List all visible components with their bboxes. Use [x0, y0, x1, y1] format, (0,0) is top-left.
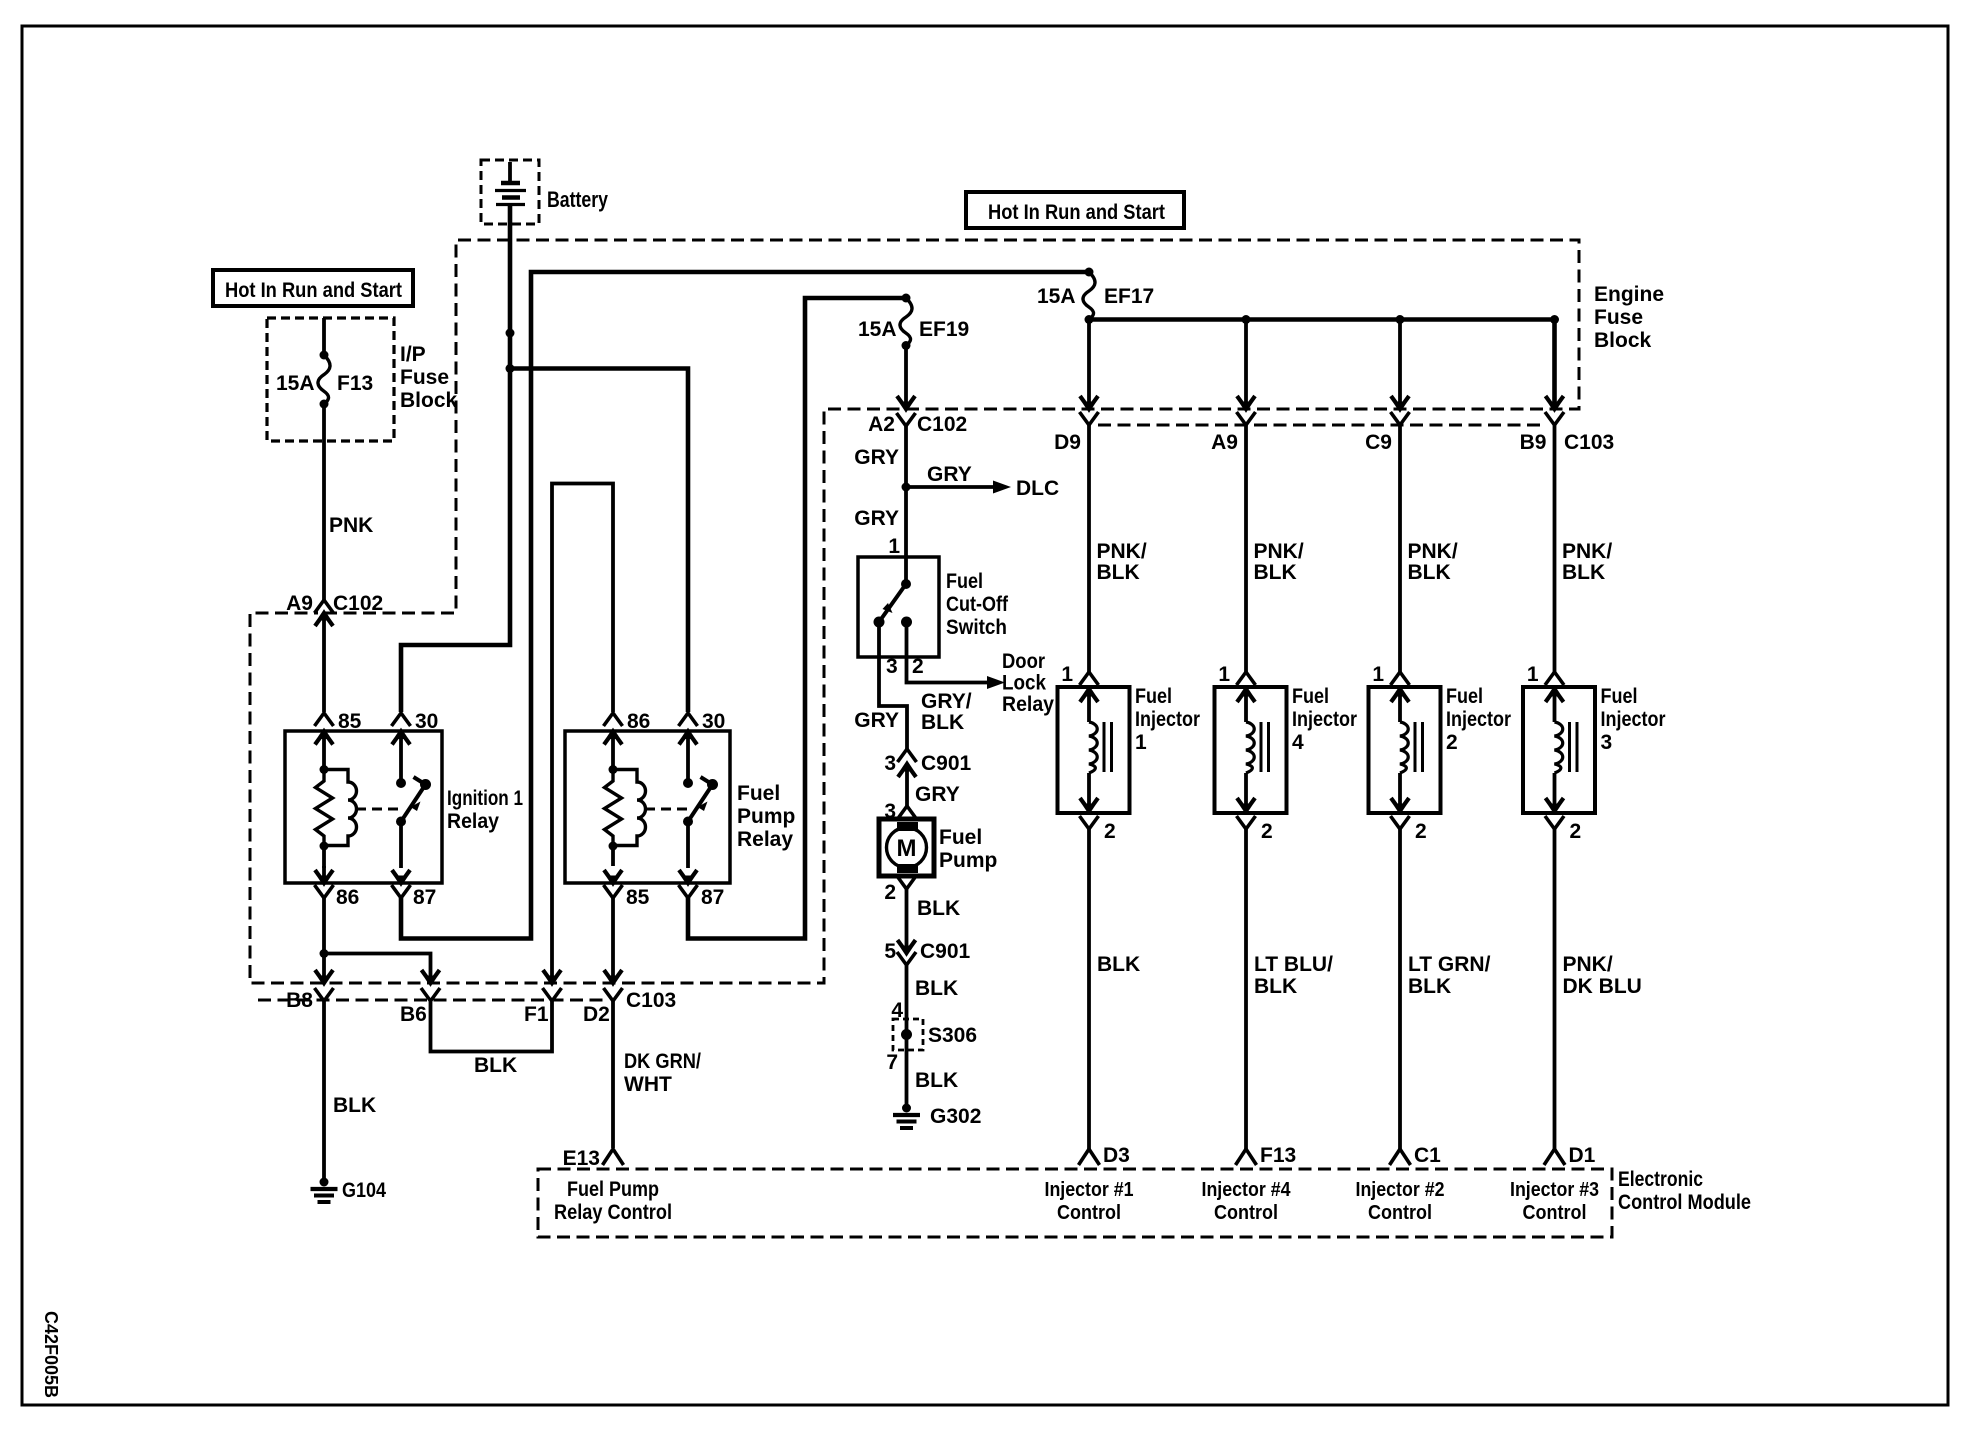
wire BLK C901 to S306: [905, 965, 909, 1019]
svg-text:PNK/: PNK/: [1408, 540, 1458, 563]
svg-text:WHT: WHT: [624, 1073, 672, 1096]
ground G104: [320, 1178, 329, 1187]
svg-text:F13: F13: [1260, 1144, 1296, 1167]
svg-text:Fuse: Fuse: [400, 366, 449, 389]
fuse F13 15A: [322, 318, 326, 355]
svg-text:2: 2: [1261, 820, 1273, 843]
svg-text:87: 87: [413, 886, 436, 909]
connector D9 arrow: [1080, 396, 1098, 409]
injector 2 pin2 chevron+label: [1391, 816, 1410, 829]
bus corner dot B9 column: [1550, 315, 1559, 324]
svg-text:PNK/: PNK/: [1254, 540, 1304, 563]
injector 4 pin1 chevron+label: [1237, 672, 1256, 685]
svg-text:BLK: BLK: [1562, 561, 1605, 584]
wire injector 1 to ECM: [1087, 829, 1091, 1149]
junction dot on battery wire (y=333): [506, 329, 515, 338]
svg-text:Electronic: Electronic: [1618, 1168, 1703, 1191]
ignition relay coil to pin86: [322, 846, 326, 868]
svg-text:Engine: Engine: [1594, 283, 1664, 306]
svg-text:C901: C901: [920, 940, 971, 963]
fuel pump relay switch to pin87: [686, 822, 690, 869]
connector D1 chevron: [1544, 1149, 1565, 1165]
wire DK GRN/WHT D2 to E13: [611, 1001, 615, 1148]
connector C1 chevron: [1390, 1149, 1411, 1165]
connector B6 arrow: [422, 970, 440, 983]
svg-text:I/P: I/P: [400, 343, 426, 366]
svg-text:PNK/: PNK/: [1562, 540, 1612, 563]
svg-text:Ignition 1: Ignition 1: [447, 787, 523, 810]
connector C9 arrow: [1391, 396, 1409, 409]
svg-text:A9: A9: [286, 592, 313, 615]
svg-text:Relay: Relay: [737, 828, 793, 851]
svg-text:Fuel: Fuel: [1446, 685, 1483, 708]
svg-text:LT GRN/: LT GRN/: [1408, 953, 1491, 976]
connector A2 C102 arrow: [897, 396, 915, 409]
svg-text:Injector #1: Injector #1: [1045, 1179, 1134, 1201]
connector C901 pin3: [898, 749, 917, 762]
svg-text:Control Module: Control Module: [1618, 1191, 1751, 1214]
fuel injector 3 internals: [1546, 689, 1564, 702]
wire PNK/BLK feed to injector 1: [1087, 425, 1091, 672]
svg-text:C103: C103: [1564, 431, 1614, 454]
battery B1 symbol: [508, 162, 512, 183]
ECM dashed box: [538, 1169, 1612, 1237]
ignition relay dashed link: [356, 808, 404, 811]
fuel pump relay dashed link: [645, 808, 691, 811]
svg-text:Lock: Lock: [1002, 672, 1046, 695]
svg-text:C901: C901: [921, 752, 972, 775]
svg-text:2: 2: [1415, 820, 1427, 843]
ignition relay coil: [320, 765, 329, 774]
ignition relay coil feed arrows: [315, 732, 333, 745]
wire PNK/BLK feed to injector 2: [1398, 425, 1402, 672]
injector 4 pin2 chevron+label: [1237, 816, 1256, 829]
ignition relay pin87 chevron+label: [392, 885, 411, 898]
svg-text:F13: F13: [337, 372, 373, 395]
svg-text:BLK: BLK: [921, 711, 964, 734]
connector F1 arrow: [543, 970, 561, 983]
battery B1 dashed box: [481, 160, 539, 224]
injector 1 pin2 chevron+label: [1080, 816, 1099, 829]
pump pin2 chevron: [897, 876, 916, 889]
wire PNK/BLK feed to injector 3: [1553, 425, 1557, 672]
wire junction to B6: [324, 954, 431, 983]
wire ignition 86 down + junction: [322, 898, 326, 982]
fuel pump relay pin30 chevron+label: [679, 713, 698, 726]
svg-text:EF19: EF19: [919, 318, 969, 341]
svg-text:85: 85: [338, 710, 362, 733]
svg-text:1: 1: [1218, 663, 1230, 686]
svg-text:BLK: BLK: [1097, 561, 1140, 584]
svg-text:A9: A9: [1211, 431, 1238, 454]
label box Hot In Run and Start (right): [966, 192, 1184, 228]
svg-text:GRY: GRY: [915, 783, 960, 806]
svg-text:1: 1: [1135, 731, 1147, 754]
svg-text:Control: Control: [1368, 1202, 1432, 1224]
svg-text:Fuel: Fuel: [1601, 685, 1638, 708]
injector 2 pin1 chevron+label: [1391, 672, 1410, 685]
fuel pump relay coil feed arrows: [604, 732, 622, 745]
fuel injector 1 box: [1058, 687, 1130, 813]
wire BLK S306 to G302: [905, 1050, 909, 1107]
connector F13 chevron: [1236, 1149, 1257, 1165]
svg-text:PNK/: PNK/: [1097, 540, 1147, 563]
fuel pump relay pin85 chevron+label: [604, 885, 623, 898]
wire BLK pump to C901 pin5: [905, 889, 909, 951]
svg-text:Injector: Injector: [1292, 708, 1357, 731]
svg-text:Fuel: Fuel: [737, 782, 780, 805]
svg-text:B6: B6: [400, 1003, 427, 1026]
svg-text:C9: C9: [1365, 431, 1392, 454]
svg-text:Block: Block: [400, 389, 458, 412]
wire ignition relay 87 riser to fuse EF17: [401, 272, 1089, 939]
svg-text:DK GRN/: DK GRN/: [624, 1050, 701, 1073]
svg-text:G302: G302: [930, 1105, 981, 1128]
svg-text:Injector #3: Injector #3: [1510, 1179, 1599, 1201]
svg-text:Block: Block: [1594, 329, 1652, 352]
svg-text:30: 30: [702, 710, 725, 733]
svg-text:Fuse: Fuse: [1594, 306, 1643, 329]
svg-text:GRY/: GRY/: [921, 690, 972, 713]
fuel pump relay switch: [683, 778, 693, 788]
fuel injector 1 internals: [1080, 689, 1098, 702]
svg-text:1: 1: [1061, 663, 1073, 686]
wire GRY/BLK to door lock relay: [907, 622, 995, 683]
wire injector 2 to ECM: [1398, 829, 1402, 1149]
ignition relay pin30 chevron+label: [392, 713, 411, 726]
svg-text:PNK: PNK: [329, 514, 373, 537]
svg-text:7: 7: [886, 1051, 898, 1074]
connector B9 arrow: [1546, 396, 1564, 409]
svg-text:Cut-Off: Cut-Off: [946, 593, 1009, 616]
wire battery to fuel pump relay pin30: [510, 369, 688, 713]
svg-text:DK BLU: DK BLU: [1563, 975, 1642, 998]
svg-text:2: 2: [1104, 820, 1116, 843]
svg-text:2: 2: [1570, 820, 1582, 843]
svg-text:GRY: GRY: [927, 463, 972, 486]
svg-text:3: 3: [886, 655, 898, 678]
svg-text:Fuel: Fuel: [1292, 685, 1329, 708]
dashed boundary engine fuse block region: [250, 240, 1579, 983]
svg-text:BLK: BLK: [915, 1069, 958, 1092]
svg-text:Hot In Run and Start: Hot In Run and Start: [988, 201, 1165, 224]
splice S306 dot: [901, 1029, 912, 1040]
svg-text:Fuel: Fuel: [1135, 685, 1172, 708]
svg-text:Hot In Run and Start: Hot In Run and Start: [225, 279, 402, 302]
svg-text:Control: Control: [1523, 1202, 1587, 1224]
svg-text:E13: E13: [563, 1147, 600, 1170]
wire BLK jumper B6 to F1: [431, 1001, 553, 1052]
junction dot battery feed split: [506, 364, 515, 373]
connector E13 chevron: [603, 1149, 624, 1165]
wire BLK B8 to G104: [322, 1001, 326, 1181]
fuel injector 4 internals: [1237, 689, 1255, 702]
svg-text:Battery: Battery: [547, 187, 609, 212]
svg-text:C102: C102: [333, 592, 383, 615]
svg-text:D9: D9: [1054, 431, 1081, 454]
fuse EF17 15A: [1085, 268, 1094, 277]
fuel injector 4 box: [1215, 687, 1287, 813]
svg-text:15A: 15A: [858, 318, 897, 341]
connector A9 arrow: [1237, 396, 1255, 409]
svg-text:Pump: Pump: [939, 849, 997, 872]
svg-text:LT BLU/: LT BLU/: [1254, 953, 1333, 976]
wire GRY tee to DLC: [906, 485, 1000, 489]
I/P fuse block dashed box: [267, 318, 394, 441]
svg-text:C102: C102: [917, 413, 967, 436]
svg-text:Injector: Injector: [1601, 708, 1666, 731]
svg-text:1: 1: [888, 535, 900, 558]
label box Hot In Run and Start (left): [213, 270, 413, 306]
svg-text:2: 2: [1446, 731, 1458, 754]
fuel pump relay pin86 chevron+label: [604, 713, 623, 726]
svg-text:86: 86: [336, 886, 359, 909]
svg-text:1: 1: [1372, 663, 1384, 686]
wire bus drop C9: [1398, 320, 1402, 409]
svg-text:Relay: Relay: [1002, 693, 1054, 716]
fuel cut-off switch contacts: [904, 557, 908, 584]
wire injector 3 to ECM: [1553, 829, 1557, 1149]
junction dot DLC tee: [902, 483, 911, 492]
svg-text:87: 87: [701, 886, 724, 909]
fuel injector 3 box: [1523, 687, 1595, 813]
svg-text:Control: Control: [1057, 1202, 1121, 1224]
svg-text:BLK: BLK: [1408, 561, 1451, 584]
ignition relay switch: [396, 778, 406, 788]
ignition relay switch to pin87: [399, 822, 403, 869]
svg-text:GRY: GRY: [854, 507, 899, 530]
svg-text:Fuel: Fuel: [939, 826, 982, 849]
injector supply bus from EF17: [1089, 320, 1555, 409]
dashed connector line C103 lower: [258, 999, 606, 1002]
ignition 1 relay box: [285, 731, 442, 883]
svg-text:C103: C103: [626, 989, 676, 1012]
wire injector 4 to ECM: [1244, 829, 1248, 1149]
connector D3 chevron: [1079, 1149, 1100, 1165]
bus junction dot A9 column: [1242, 315, 1251, 324]
fuel injector 2 box: [1369, 687, 1441, 813]
svg-text:D2: D2: [583, 1003, 610, 1026]
svg-text:4: 4: [1292, 731, 1304, 754]
svg-text:3: 3: [884, 752, 896, 775]
connector B8 arrow: [315, 970, 333, 983]
svg-text:15A: 15A: [276, 372, 315, 395]
svg-text:BLK: BLK: [917, 897, 960, 920]
svg-text:Control: Control: [1214, 1202, 1278, 1224]
fuel pump motor symbol: [897, 822, 918, 831]
wire PNK F13 to connector A9: [322, 441, 326, 601]
svg-text:PNK/: PNK/: [1563, 953, 1613, 976]
svg-text:Relay: Relay: [447, 810, 499, 833]
svg-text:Injector: Injector: [1135, 708, 1200, 731]
fuel pump relay coil: [609, 765, 618, 774]
svg-text:GRY: GRY: [854, 446, 899, 469]
svg-text:30: 30: [415, 710, 438, 733]
svg-text:Pump: Pump: [737, 805, 795, 828]
svg-text:DLC: DLC: [1016, 477, 1059, 500]
connector C901 pin5: [898, 940, 916, 953]
fuel pump box: [879, 819, 934, 876]
svg-text:Injector: Injector: [1446, 708, 1511, 731]
svg-text:15A: 15A: [1037, 285, 1076, 308]
svg-text:3: 3: [1601, 731, 1613, 754]
wire GRY A2 to fuel cutoff switch: [904, 426, 908, 557]
wire F1 riser to fuel pump relay pin86: [552, 484, 613, 983]
svg-text:5: 5: [884, 940, 896, 963]
injector 1 pin1 chevron+label: [1080, 672, 1099, 685]
svg-text:C1: C1: [1414, 1144, 1441, 1167]
svg-text:EF17: EF17: [1104, 285, 1154, 308]
wire bus drop A9: [1244, 320, 1248, 409]
svg-text:85: 85: [626, 886, 650, 909]
ignition relay pin86 chevron+label: [315, 885, 334, 898]
svg-text:S306: S306: [928, 1024, 977, 1047]
wire GRY cutoff pin3 to C901: [879, 622, 907, 749]
svg-text:2: 2: [912, 655, 924, 678]
svg-text:BLK: BLK: [1408, 975, 1451, 998]
svg-text:F1: F1: [524, 1003, 549, 1026]
injector 3 pin2 chevron+label: [1545, 816, 1564, 829]
svg-text:BLK: BLK: [1254, 975, 1297, 998]
bus junction dot C9 column: [1396, 315, 1405, 324]
svg-text:B9: B9: [1520, 431, 1547, 454]
svg-text:M: M: [897, 835, 917, 862]
fuel pump relay box: [565, 731, 730, 883]
wire PNK/BLK feed to injector 4: [1244, 425, 1248, 672]
svg-text:BLK: BLK: [1097, 953, 1140, 976]
svg-text:Switch: Switch: [946, 616, 1007, 639]
svg-text:1: 1: [1527, 663, 1539, 686]
svg-text:BLK: BLK: [474, 1054, 517, 1077]
wire connector A9 to ignition relay pin85: [322, 628, 326, 712]
svg-text:Door: Door: [1002, 650, 1045, 673]
svg-text:BLK: BLK: [333, 1094, 376, 1117]
wire battery to ignition relay pin30: [401, 205, 510, 713]
svg-text:C42F005B: C42F005B: [41, 1311, 61, 1398]
svg-text:Relay Control: Relay Control: [554, 1201, 672, 1224]
svg-text:Injector #2: Injector #2: [1356, 1179, 1445, 1201]
fuel pump relay coil to pin85: [611, 846, 615, 866]
wire fuel pump relay 87 riser to fuse EF19: [688, 298, 906, 939]
svg-text:D3: D3: [1103, 1144, 1130, 1167]
dashed connector line C103 (injector feeds): [1098, 424, 1546, 427]
svg-text:2: 2: [884, 881, 896, 904]
svg-text:86: 86: [627, 710, 650, 733]
svg-text:G104: G104: [342, 1179, 386, 1202]
svg-text:D1: D1: [1569, 1144, 1596, 1167]
ignition relay pin85 chevron+label: [315, 713, 334, 726]
fuel injector 2 internals: [1391, 689, 1409, 702]
svg-text:Fuel Pump: Fuel Pump: [567, 1178, 659, 1201]
fuse EF19 15A: [902, 294, 911, 303]
connector A9 C102: [315, 600, 334, 613]
svg-text:Fuel: Fuel: [946, 570, 983, 593]
svg-text:A2: A2: [868, 413, 895, 436]
ground G302: [902, 1104, 911, 1113]
splice S306 dashed box: [893, 1019, 923, 1050]
fuel pump relay pin87 chevron+label: [679, 885, 698, 898]
connector D2 arrow: [611, 898, 615, 982]
fuel cut-off switch box: [858, 557, 939, 657]
svg-text:BLK: BLK: [915, 977, 958, 1000]
svg-text:Injector #4: Injector #4: [1202, 1179, 1292, 1201]
wire bus drop D9: [1087, 320, 1091, 409]
svg-text:GRY: GRY: [854, 709, 899, 732]
svg-text:BLK: BLK: [1254, 561, 1297, 584]
injector 3 pin1 chevron+label: [1545, 672, 1564, 685]
connector chevron at pump pin3: [898, 806, 917, 819]
